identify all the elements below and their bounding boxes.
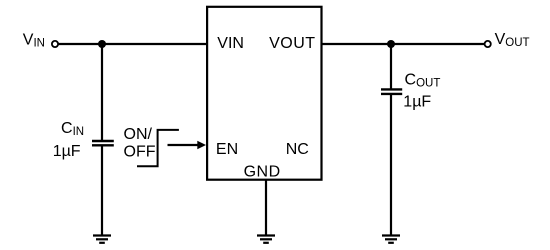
ground (Cout) xyxy=(382,236,400,243)
svg-text:GND: GND xyxy=(244,164,281,181)
node output junction xyxy=(387,40,395,48)
wire GND pin xyxy=(265,180,267,236)
ground (GND pin) xyxy=(257,236,275,243)
wire output xyxy=(322,43,485,45)
wire Cin upper xyxy=(101,44,103,140)
svg-text:VOUT: VOUT xyxy=(269,35,315,52)
wire Cin lower xyxy=(101,146,103,236)
node input junction xyxy=(98,40,106,48)
capacitor C_IN xyxy=(92,141,114,145)
svg-text:EN: EN xyxy=(216,141,238,158)
terminal Vin xyxy=(52,41,58,47)
svg-text:VIN: VIN xyxy=(217,35,244,52)
wire Cout lower xyxy=(390,95,392,236)
svg-text:1µF: 1µF xyxy=(53,143,81,160)
IC box U1 xyxy=(207,7,321,180)
wire Cout upper xyxy=(390,44,392,89)
ground (Cin) xyxy=(93,236,111,243)
wire input xyxy=(58,43,207,45)
arrow to EN xyxy=(168,144,200,146)
svg-text:ON/: ON/ xyxy=(124,126,153,143)
svg-text:OFF: OFF xyxy=(124,143,156,160)
step waveform symbol xyxy=(137,130,179,166)
capacitor C_OUT xyxy=(381,89,402,94)
svg-text:1µF: 1µF xyxy=(403,94,431,111)
svg-text:NC: NC xyxy=(286,141,309,158)
terminal Vout xyxy=(485,41,491,47)
